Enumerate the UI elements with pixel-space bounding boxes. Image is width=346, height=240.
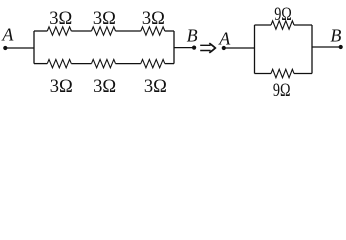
svg-text:3Ω: 3Ω bbox=[93, 77, 116, 97]
wire R2 to R3 (top branch) bbox=[116, 30, 141, 32]
wire right bus to node B (right circuit) bbox=[312, 46, 341, 48]
wire right bus (vertical, left circuit) bbox=[173, 31, 175, 64]
svg-text:3Ω: 3Ω bbox=[144, 77, 167, 97]
wire bus to R8 (bottom branch right circuit) bbox=[255, 73, 272, 75]
svg-text:B: B bbox=[330, 25, 341, 45]
wire left bus (vertical, right circuit) bbox=[254, 25, 256, 74]
svg-text:A: A bbox=[1, 25, 14, 45]
wire A to left bus bbox=[5, 47, 34, 49]
wire bus to R4 (bottom branch) bbox=[34, 63, 47, 65]
wire R7 to right bus bbox=[294, 24, 312, 26]
wire R1 to R2 (top branch) bbox=[71, 30, 91, 32]
node B (left circuit) terminal dot bbox=[192, 46, 196, 50]
wire bus to R7 (top branch right circuit) bbox=[255, 24, 272, 26]
implies arrow (equivalence), double shaft bbox=[200, 45, 210, 50]
svg-text:3Ω: 3Ω bbox=[50, 77, 73, 97]
wire R6 to right bus (bottom branch) bbox=[165, 63, 174, 65]
wire R3 to right bus (top branch) bbox=[165, 30, 174, 32]
implies arrow head bbox=[209, 43, 215, 53]
svg-text:3Ω: 3Ω bbox=[49, 9, 72, 29]
resistor R6 3ohm (bottom branch) bbox=[141, 59, 165, 67]
node B (right circuit) terminal dot bbox=[339, 45, 343, 49]
svg-text:3Ω: 3Ω bbox=[93, 9, 116, 29]
svg-text:3Ω: 3Ω bbox=[142, 9, 165, 29]
svg-text:9Ω: 9Ω bbox=[274, 5, 292, 25]
wire R4 to R5 (bottom branch) bbox=[71, 63, 91, 65]
wire left bus (vertical) bbox=[33, 31, 35, 64]
wire right bus (vertical, right circuit) bbox=[311, 25, 313, 74]
wire R8 to right bus bbox=[294, 73, 312, 75]
resistor R2 3ohm (top branch) bbox=[92, 27, 116, 35]
wire R5 to R6 (bottom branch) bbox=[116, 63, 141, 65]
resistor R4 3ohm (bottom branch) bbox=[47, 59, 71, 67]
svg-text:B: B bbox=[187, 26, 198, 46]
wire bus to R1 (top branch) bbox=[34, 30, 47, 32]
resistor R7 9ohm (top branch right circuit) bbox=[271, 21, 294, 29]
wire A to left bus (right circuit) bbox=[224, 47, 255, 49]
wire right bus to node B bbox=[174, 47, 194, 49]
resistor R3 3ohm (top branch) bbox=[141, 27, 165, 35]
resistor R5 3ohm (bottom branch) bbox=[92, 59, 116, 67]
svg-text:9Ω: 9Ω bbox=[273, 81, 291, 100]
node A (left circuit) terminal dot bbox=[3, 46, 7, 50]
svg-text:A: A bbox=[218, 29, 231, 49]
resistor R1 3ohm (top branch) bbox=[47, 27, 71, 35]
resistor R8 9ohm (bottom branch right circuit) bbox=[271, 69, 294, 77]
node A (right circuit) terminal dot bbox=[222, 46, 226, 50]
